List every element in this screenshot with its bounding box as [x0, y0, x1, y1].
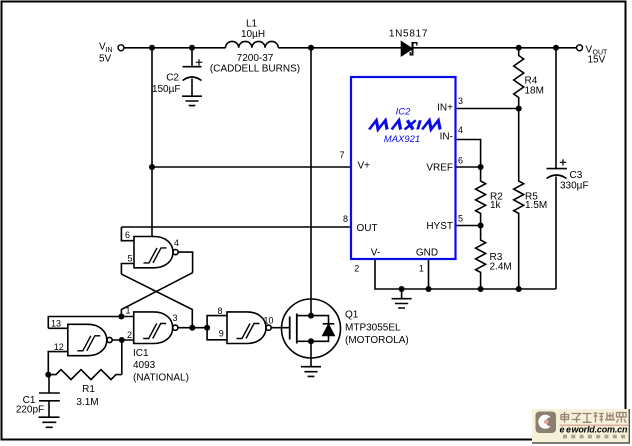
- svg-text:10µH: 10µH: [241, 29, 265, 40]
- wire IC2 pin 2 V- to ground rail: [375, 259, 556, 289]
- label R2 1k: [490, 192, 503, 212]
- svg-text:VREF: VREF: [426, 163, 453, 174]
- terminal VIN: [118, 45, 124, 51]
- svg-text:6: 6: [458, 156, 463, 166]
- svg-text:7200-37: 7200-37: [237, 53, 274, 64]
- svg-text:15V: 15V: [588, 55, 606, 66]
- gate D (4093 NAND, pins 8,9,10): [227, 312, 271, 344]
- svg-text:Q1: Q1: [345, 310, 359, 321]
- node junction IN+ R4 R5: [516, 106, 522, 112]
- svg-text:C2: C2: [166, 73, 179, 84]
- terminal VOUT: [577, 45, 583, 51]
- label L1 10uH: [241, 19, 265, 41]
- node junction rail R5: [516, 286, 522, 292]
- svg-text:4: 4: [458, 125, 463, 135]
- IC2 pin names: [357, 103, 454, 259]
- ground below C2: [182, 96, 202, 105]
- label R1 3.1M: [76, 384, 98, 408]
- label C2 150uF: [152, 73, 181, 96]
- wire top rail VIN to L1: [124, 47, 226, 49]
- svg-text:2: 2: [127, 330, 132, 340]
- capacitor C3: [547, 48, 568, 289]
- wire IC2 pin 4 IN-: [456, 140, 481, 168]
- label IC1 4093 NATIONAL: [133, 348, 189, 384]
- transistor Q1 MOSFET: [282, 299, 341, 358]
- svg-text:GND: GND: [416, 248, 438, 259]
- resistor R3: [476, 226, 486, 290]
- wire IC2 pin 6 VREF: [456, 166, 481, 168]
- node junction gate B input 1: [118, 314, 124, 320]
- node junction C3 top: [553, 45, 559, 51]
- svg-text:MTP3055EL: MTP3055EL: [345, 323, 401, 334]
- wire IC2 pin 5 HYST: [456, 225, 481, 227]
- node junction V+ tap: [149, 164, 155, 170]
- resistor R1: [48, 370, 122, 380]
- svg-text:(CADDELL BURNS): (CADDELL BURNS): [210, 64, 300, 75]
- wire top rail diode to VOUT: [414, 47, 577, 49]
- wire top rail L1 to diode: [278, 47, 401, 49]
- label VOUT 15V: [586, 45, 609, 66]
- svg-text:V+: V+: [358, 161, 371, 172]
- node junction gate D bracket: [204, 325, 210, 331]
- node junction C2 top: [189, 45, 195, 51]
- svg-text:12: 12: [54, 342, 64, 352]
- node junction R1 C1 gate C pin 12: [45, 372, 51, 378]
- svg-text:C3: C3: [570, 170, 583, 181]
- wire V+ to IC2 pin 7: [152, 166, 352, 168]
- resistor R2: [476, 167, 486, 226]
- gate B (4093 NAND, pins 1,2,3): [134, 312, 178, 344]
- svg-text:IN+: IN+: [437, 103, 453, 114]
- svg-text:150µF: 150µF: [152, 84, 181, 95]
- wire V+ rail left vertical: [151, 48, 153, 237]
- node junction VIN rail: [149, 45, 155, 51]
- svg-text:3: 3: [172, 313, 177, 323]
- ground below Q1: [301, 367, 321, 377]
- svg-text:1.5M: 1.5M: [525, 200, 547, 211]
- node junction drain top: [308, 45, 314, 51]
- svg-text:OUT: OUT: [357, 223, 378, 234]
- wire IC2 pin 3 IN+: [456, 108, 519, 110]
- svg-text:18M: 18M: [525, 86, 544, 97]
- svg-text:world.com.cn: world.com.cn: [572, 425, 629, 435]
- svg-text:7: 7: [339, 150, 344, 160]
- inductor L1: [226, 41, 279, 47]
- node junction rail R3: [478, 286, 484, 292]
- gate C input bracket pin 12: [48, 352, 68, 375]
- node junction HYST R2 R3: [478, 223, 484, 229]
- gate A input bracket pin 6: [121, 227, 134, 241]
- gate pin number labels: [51, 230, 274, 352]
- label R5 1.5M: [525, 192, 547, 212]
- wire cross diagonal A-out to B-in1: [121, 273, 192, 317]
- wire gate B output to gate D inputs: [178, 327, 207, 329]
- svg-text:8: 8: [217, 306, 222, 316]
- label R3 2.4M: [490, 252, 512, 273]
- label C3 330uF: [560, 170, 589, 192]
- svg-text:4093: 4093: [133, 360, 156, 371]
- svg-text:3: 3: [458, 96, 463, 106]
- capacitor C2: [183, 48, 203, 96]
- label VIN 5V: [99, 42, 113, 65]
- svg-text:1k: 1k: [490, 200, 502, 211]
- wire IC2 pin 1 GND: [428, 259, 430, 289]
- wire gate C output to gate B input 2: [112, 339, 134, 341]
- node junction B-out cross: [189, 325, 195, 331]
- svg-text:4: 4: [174, 238, 179, 248]
- svg-text:3.1M: 3.1M: [76, 397, 98, 408]
- svg-text:9: 9: [219, 329, 224, 339]
- node junction gate B input 2: [119, 337, 125, 343]
- svg-text:IN-: IN-: [440, 132, 453, 143]
- gate D input bracket pins 8,9: [207, 316, 227, 340]
- svg-text:R1: R1: [82, 384, 95, 395]
- svg-text:IC1: IC1: [133, 348, 149, 359]
- gate A (4093 NAND, pins 5,6,4): [134, 237, 178, 268]
- svg-text:2: 2: [354, 264, 359, 274]
- svg-text:2.4M: 2.4M: [490, 262, 512, 273]
- wire IC2 OUT pin 8 to gate A: [121, 226, 352, 228]
- gate C (4093 NAND, pins 12,13): [68, 324, 112, 355]
- wire gate D output to Q1 gate: [271, 327, 289, 329]
- IC2 pin labels: [339, 96, 463, 274]
- svg-text:HYST: HYST: [426, 221, 453, 232]
- label R4 18M: [525, 76, 544, 97]
- resistor R5: [514, 109, 524, 290]
- svg-text:220pF: 220pF: [16, 405, 44, 416]
- wire in13 bracket to B input 1: [48, 317, 133, 329]
- node junction R4 top: [516, 45, 522, 51]
- logo MAXIM: [369, 120, 443, 129]
- svg-text:8: 8: [343, 214, 348, 224]
- gate A input bracket pin 5: [121, 264, 134, 275]
- svg-text:6: 6: [125, 230, 130, 240]
- svg-text:5V: 5V: [99, 54, 112, 65]
- label 7200-37 CADDELL BURNS: [210, 53, 300, 75]
- svg-text:10: 10: [263, 316, 273, 326]
- label Q1 MTP3055EL MOTOROLA: [345, 310, 409, 347]
- gate C input stub pin 13: [48, 327, 68, 329]
- resistor R4: [514, 48, 524, 109]
- svg-text:1: 1: [419, 264, 424, 274]
- svg-text:1N5817: 1N5817: [389, 29, 428, 40]
- svg-text:ee: ee: [560, 425, 572, 435]
- svg-text:13: 13: [51, 319, 61, 329]
- ground below C1: [39, 417, 60, 427]
- capacitor C1: [39, 375, 60, 417]
- svg-text:IC2: IC2: [396, 107, 412, 118]
- svg-text:V-: V-: [371, 248, 380, 259]
- watermark eeworld: [532, 409, 630, 444]
- node junction rail GND pin: [426, 286, 432, 292]
- diode D1 1N5817: [402, 42, 417, 56]
- wire gate A output to cross: [178, 252, 192, 273]
- svg-text:(NATIONAL): (NATIONAL): [133, 373, 189, 384]
- wire Q1 drain vertical: [310, 48, 312, 316]
- svg-text:5: 5: [127, 254, 132, 264]
- svg-text:MAX921: MAX921: [384, 134, 420, 145]
- label C1 220pF: [16, 395, 44, 416]
- wire cross diagonal A-in5 to B-out: [121, 274, 192, 328]
- ground below IC2 rail: [392, 289, 412, 308]
- svg-text:1: 1: [125, 306, 130, 316]
- wire B input2 node down to R1: [121, 340, 123, 375]
- wire Q1 source to ground: [310, 341, 312, 366]
- node junction rail ground: [399, 286, 405, 292]
- node junction VREF IN- R2: [478, 164, 484, 170]
- svg-text:5: 5: [458, 214, 463, 224]
- svg-text:L1: L1: [246, 19, 258, 30]
- svg-text:(MOTOROLA): (MOTOROLA): [345, 335, 409, 346]
- op-amp comparator IC2 box: [351, 77, 456, 259]
- svg-text:330µF: 330µF: [560, 181, 589, 192]
